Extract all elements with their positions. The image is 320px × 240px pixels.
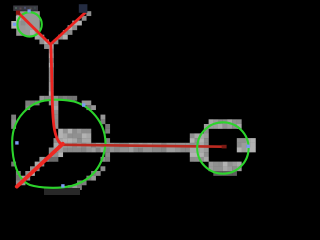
- handle dot N1-northeast: [82, 103, 85, 106]
- wire W1 (small circle to junction): [18, 12, 51, 44]
- wire W1 start cap: [16, 11, 20, 15]
- node N2 box fill (coarse zoom): [16, 11, 40, 36]
- wire W3 (junction down to hub): [51, 44, 63, 144]
- handle dot N2-north: [28, 9, 31, 12]
- coarse zoom pixel layer (gray blocks): [11, 11, 256, 190]
- node N2 box highlight (left block): [11, 21, 16, 29]
- node N2 (small top-left circle): [17, 12, 41, 36]
- wire W5 (hub to bottom-left tip): [17, 144, 63, 187]
- handle dot N2-west: [13, 23, 16, 26]
- wire W4 (hub to right node): [62, 145, 223, 147]
- handle dot N1-south: [61, 184, 64, 187]
- wire W2 (junction to top-right stub): [50, 12, 85, 44]
- node N3 (right circle): [197, 122, 248, 173]
- faint shadow under blob bottom: [44, 188, 80, 195]
- node label bar: [13, 6, 38, 11]
- wire W4 end cap: [222, 145, 227, 149]
- wire W2 end smudge: [79, 4, 88, 13]
- node N1 (big blob outline): [12, 100, 105, 188]
- handle dot N1-west: [15, 141, 18, 144]
- handle dot N3-east: [246, 145, 249, 148]
